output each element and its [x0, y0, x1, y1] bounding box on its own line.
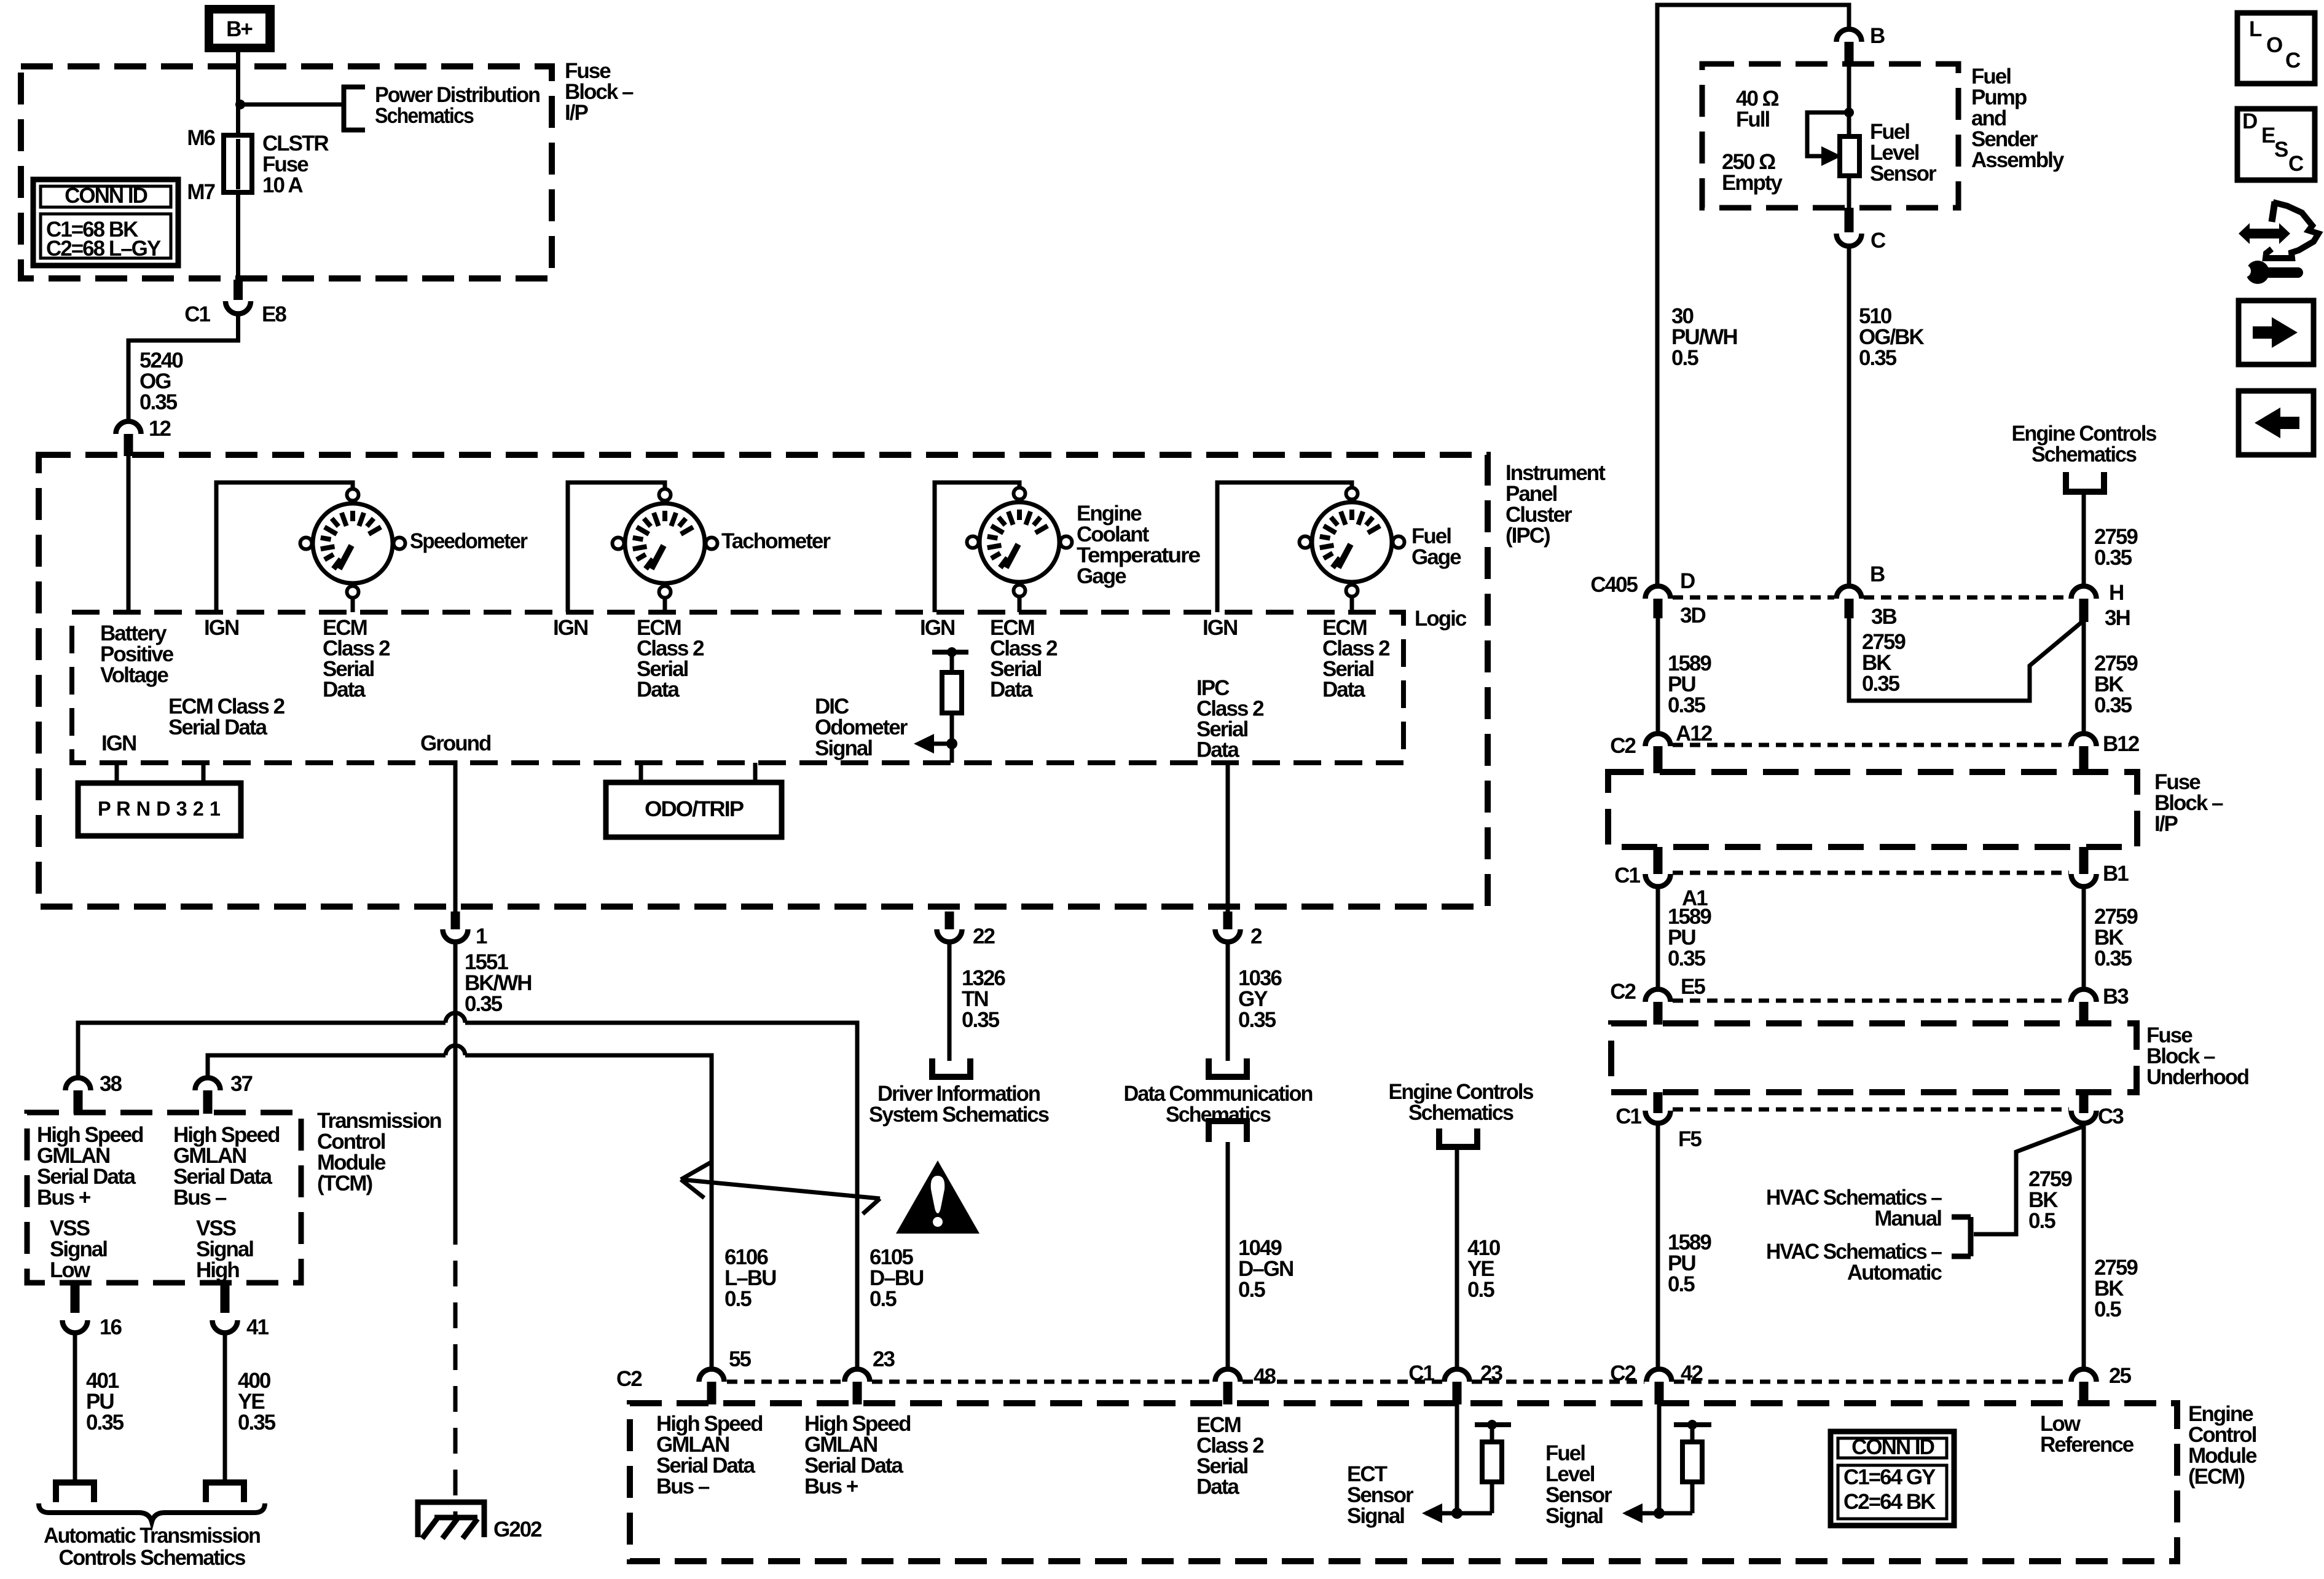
- HVAC off-page bracket: [1952, 1217, 1971, 1256]
- label Speedometer: [410, 529, 528, 553]
- pin 48 terminal bar: [1223, 1382, 1233, 1404]
- wire 2759 to C405 H: [2082, 492, 2086, 585]
- connector 55 arc: [699, 1369, 724, 1382]
- pin 1 terminal bar: [451, 912, 460, 929]
- svg-text:41: 41: [246, 1315, 269, 1339]
- label wire 6105 D-BU 0.5: [870, 1245, 924, 1311]
- svg-text:3B: 3B: [1871, 605, 1896, 629]
- pin B1 terminal bar: [2079, 847, 2089, 874]
- svg-text:Signal: Signal: [815, 736, 872, 760]
- wire GMLAN bus+ 38 to 23: [78, 1013, 857, 1369]
- fuse block Underhood dashed box: [1611, 1023, 2137, 1092]
- label B (fuel pump): [1870, 24, 1885, 48]
- wire CLSTR fuse to connector C1-E8: [236, 192, 240, 281]
- icon LOC box: [2237, 13, 2315, 84]
- wire 400 YE: [223, 1331, 227, 1483]
- pin 41 terminal bar: [221, 1283, 230, 1313]
- connector C2 42 arc: [1647, 1369, 1672, 1382]
- svg-text:0.5: 0.5: [1238, 1278, 1265, 1302]
- label 3H: [2105, 606, 2130, 630]
- pin B12 terminal bar: [2079, 746, 2089, 773]
- svg-text:0.35: 0.35: [1668, 693, 1706, 717]
- svg-text:Manual: Manual: [1874, 1207, 1941, 1231]
- svg-text:F5: F5: [1678, 1127, 1702, 1151]
- svg-text:Bus +: Bus +: [37, 1186, 91, 1210]
- svg-text:10 A: 10 A: [262, 173, 303, 197]
- wire stub logic to PRND321 pin1: [115, 763, 119, 785]
- label IPC Class 2 Serial Data: [1196, 676, 1264, 762]
- label 38: [100, 1072, 122, 1096]
- connector C405 D arc: [1646, 586, 1671, 599]
- label Fuse Block I/P: [565, 59, 634, 125]
- fuse CLSTR 10A: [224, 135, 252, 192]
- svg-text:E: E: [2261, 124, 2275, 148]
- svg-text:IGN: IGN: [204, 616, 238, 640]
- svg-text:0.35: 0.35: [1668, 947, 1706, 971]
- svg-text:C2: C2: [1610, 1361, 1636, 1385]
- wire GMLAN bus- 37 to 55: [208, 1045, 712, 1369]
- junction dot ECT rail: [1487, 1420, 1497, 1430]
- warning triangle note: [896, 1160, 979, 1234]
- label Engine Control Module ECM: [2188, 1402, 2257, 1489]
- label C405: [1590, 573, 1638, 597]
- battery positive voltage B+ symbol: [205, 5, 275, 52]
- svg-text:S: S: [2274, 138, 2288, 162]
- label 2: [1250, 924, 1262, 948]
- svg-text:Full: Full: [1736, 108, 1769, 132]
- label A1: [1682, 886, 1708, 910]
- label D: [1680, 569, 1695, 593]
- wire resistor to DIC tap: [950, 713, 954, 763]
- connector 25 arc: [2071, 1369, 2097, 1382]
- wire 1589 PU F5 to 42: [1656, 1125, 1660, 1369]
- label wire 410 YE 0.5: [1467, 1236, 1501, 1302]
- wire 2759 BK HVAC branch: [1974, 1127, 2083, 1234]
- pin C2-42 terminal bar: [1655, 1382, 1664, 1404]
- display ODO/TRIP: [606, 782, 782, 837]
- arrow fuel level sensor wiper: [1821, 146, 1842, 166]
- label Fuel Gage: [1411, 524, 1461, 569]
- twisted pair note arrow: [681, 1162, 880, 1214]
- dotted connector row E5 B3: [1673, 999, 2069, 1003]
- label 3B: [1871, 605, 1896, 629]
- svg-text:25: 25: [2109, 1364, 2131, 1388]
- svg-text:Data: Data: [1196, 738, 1239, 762]
- connector 37 arc: [195, 1078, 221, 1091]
- svg-text:0.5: 0.5: [1668, 1272, 1695, 1296]
- label Fuel Level Sensor Signal: [1545, 1441, 1612, 1528]
- connector 12 arc: [116, 421, 141, 434]
- wire IGN rail to resistor: [950, 652, 954, 675]
- label C3: [2098, 1105, 2124, 1128]
- label Automatic Transmission Controls Schematics: [44, 1524, 261, 1570]
- connector B12 arc: [2071, 733, 2097, 746]
- resistor ECT pullup: [1482, 1442, 1502, 1482]
- svg-text:0.35: 0.35: [2094, 947, 2132, 971]
- wire pin 12 to logic battery input: [127, 456, 131, 612]
- junction dot fuel signal: [1654, 1508, 1665, 1519]
- svg-text:0.5: 0.5: [2028, 1209, 2055, 1233]
- resistor fuel level pullup: [1682, 1442, 1702, 1482]
- svg-text:C2=64 BK: C2=64 BK: [1843, 1490, 1936, 1514]
- label B (C405): [1870, 562, 1885, 586]
- pin E5 terminal bar: [1654, 1002, 1663, 1025]
- svg-text:Logic: Logic: [1415, 607, 1467, 631]
- wire IPC class2 to pin 2: [1226, 763, 1230, 913]
- label G202: [493, 1518, 542, 1542]
- svg-text:0.35: 0.35: [962, 1008, 1000, 1032]
- svg-text:38: 38: [100, 1072, 122, 1096]
- svg-text:E8: E8: [262, 302, 286, 326]
- svg-text:23: 23: [1480, 1361, 1502, 1385]
- svg-text:Automatic Transmission: Automatic Transmission: [44, 1524, 261, 1548]
- svg-text:Bus +: Bus +: [804, 1475, 858, 1498]
- pin 3D terminal bar: [1654, 599, 1663, 618]
- dotted connector row C405: [1673, 596, 2069, 600]
- label wire 400 YE 0.35: [238, 1369, 276, 1435]
- svg-text:Schematics: Schematics: [2032, 443, 2137, 467]
- svg-text:B12: B12: [2103, 732, 2140, 756]
- svg-text:1: 1: [476, 924, 487, 948]
- wire stub logic to PRND321 pin2: [202, 763, 206, 785]
- label C1 (ECT): [1408, 1361, 1434, 1385]
- svg-text:(IPC): (IPC): [1505, 524, 1550, 548]
- label wire 401 PU 0.35: [86, 1369, 124, 1435]
- svg-text:H: H: [2109, 581, 2123, 605]
- svg-text:0.5: 0.5: [1467, 1278, 1494, 1302]
- pin 16 terminal bar: [71, 1283, 80, 1313]
- label 3D: [1680, 604, 1705, 628]
- IPC Logic dashed box: [72, 612, 1403, 763]
- wire ECT rail to resistor: [1490, 1425, 1494, 1444]
- svg-text:Underhood: Underhood: [2146, 1065, 2249, 1089]
- label Fuel Level Sensor: [1870, 120, 1937, 186]
- svg-text:0.35: 0.35: [2094, 546, 2132, 570]
- pin 3B terminal bar: [1845, 599, 1854, 618]
- ECT pullup rail bar: [1475, 1422, 1511, 1427]
- gauge speedometer: [300, 489, 406, 598]
- svg-text:0.5: 0.5: [724, 1287, 752, 1311]
- wire fuel arrow stem: [1626, 1511, 1659, 1516]
- label High Speed GMLAN Serial Data Bus + (TCM): [37, 1123, 143, 1210]
- label Battery Positive Voltage: [100, 621, 174, 687]
- svg-text:System Schematics: System Schematics: [869, 1103, 1050, 1127]
- label 23 (ECT): [1480, 1361, 1502, 1385]
- wire fuel tap horizontal: [1659, 1511, 1692, 1516]
- label DIC Odometer Signal: [815, 695, 908, 760]
- connector C1 E8 arc: [226, 301, 251, 313]
- label 1: [476, 924, 487, 948]
- label E5: [1681, 975, 1705, 999]
- svg-text:Data: Data: [990, 678, 1033, 702]
- svg-text:M6: M6: [187, 126, 215, 150]
- svg-text:Voltage: Voltage: [100, 663, 168, 687]
- svg-text:CONN ID: CONN ID: [65, 184, 147, 208]
- pin A1 terminal bar: [1654, 847, 1663, 874]
- label Fuse Block Underhood: [2146, 1023, 2249, 1089]
- svg-text:Gage: Gage: [1411, 545, 1461, 569]
- svg-text:ODO/TRIP: ODO/TRIP: [645, 797, 744, 821]
- svg-text:48: 48: [1254, 1364, 1276, 1388]
- svg-text:C405: C405: [1590, 573, 1638, 597]
- svg-text:(ECM): (ECM): [2188, 1465, 2244, 1489]
- svg-text:C: C: [2285, 49, 2301, 73]
- svg-text:C1: C1: [1614, 864, 1640, 888]
- svg-text:C2: C2: [616, 1367, 642, 1391]
- connector 22 arc: [937, 929, 962, 942]
- svg-text:22: 22: [973, 924, 995, 948]
- label wire 6106 L-BU 0.5: [724, 1245, 776, 1311]
- svg-text:Data: Data: [1322, 678, 1365, 702]
- pin 25 terminal bar: [2079, 1382, 2089, 1404]
- connector 1 arc: [443, 929, 468, 942]
- wire ground internal: [453, 760, 458, 913]
- label Low Reference: [2040, 1412, 2134, 1457]
- gauge engine coolant temperature: [967, 488, 1072, 597]
- wire ECT sensor signal: [1455, 1404, 1459, 1513]
- svg-text:IGN: IGN: [1203, 616, 1237, 640]
- svg-text:Empty: Empty: [1722, 171, 1783, 195]
- wire fuel pump loop top: [1657, 5, 1849, 585]
- svg-text:Schematics: Schematics: [375, 104, 474, 128]
- wire tachometer to ECM class2 pin: [663, 598, 667, 612]
- wire 1049 D-GN: [1226, 1142, 1230, 1369]
- svg-text:CONN ID: CONN ID: [1851, 1435, 1934, 1459]
- svg-text:55: 55: [729, 1347, 751, 1371]
- label Fuse Block I/P (right): [2154, 770, 2223, 836]
- off-page bracket VSS high: [206, 1483, 244, 1502]
- label ECM Class 2 Serial Data (coolant gauge): [990, 616, 1058, 702]
- svg-text:B3: B3: [2103, 985, 2129, 1009]
- wire 401 PU: [73, 1331, 77, 1483]
- dotted connector row ECM: [727, 1380, 2069, 1384]
- label wire 1049 D-GN 0.5: [1238, 1236, 1293, 1302]
- svg-text:0.35: 0.35: [1862, 672, 1900, 696]
- label 37: [230, 1072, 252, 1096]
- svg-text:Speedometer: Speedometer: [410, 529, 528, 553]
- junction dot DIC signal: [946, 738, 957, 749]
- label IGN logic lower: [101, 731, 136, 755]
- svg-text:0.35: 0.35: [1238, 1008, 1276, 1032]
- junction dot fuel level sensor: [1844, 108, 1854, 117]
- label Power Distribution Schematics: [375, 83, 540, 128]
- pin 3H terminal bar: [2079, 599, 2089, 622]
- pin 37 terminal bar: [203, 1090, 213, 1114]
- label wire 2759 BK 0.35 (3B): [1862, 630, 1906, 696]
- label wire 1589 PU 0.5: [1668, 1231, 1711, 1296]
- label wire 30 PU/WH 0.5: [1671, 304, 1737, 370]
- svg-text:Serial Data: Serial Data: [168, 715, 267, 739]
- svg-text:Signal: Signal: [1545, 1504, 1603, 1528]
- label IGN fuel gauge: [1203, 616, 1237, 640]
- wire 5240 OG jog: [128, 313, 238, 420]
- label CLSTR Fuse 10 A: [262, 132, 329, 197]
- off-page bracket data communication lower: [1209, 1121, 1247, 1142]
- label C1 (A1): [1614, 864, 1640, 888]
- label B12: [2103, 732, 2140, 756]
- label wire 510 OG/BK 0.35: [1859, 304, 1924, 370]
- wire ground dashed to G202: [453, 1219, 458, 1518]
- IGN rail bar DIC: [932, 650, 968, 655]
- svg-text:23: 23: [873, 1347, 895, 1371]
- svg-text:C2: C2: [1610, 734, 1636, 758]
- Instrument Panel Cluster IPC dashed box: [39, 455, 1488, 907]
- connector 16 arc: [63, 1320, 88, 1333]
- label 40 ohm Full: [1736, 87, 1779, 132]
- svg-text:P R N D 3 2 1: P R N D 3 2 1: [98, 797, 221, 820]
- wire coolant gauge to ECM class2 pin: [1018, 597, 1022, 612]
- junction dot fuel rail: [1687, 1420, 1697, 1430]
- off-page bracket Power Distribution: [342, 85, 365, 132]
- label IGN tachometer: [553, 616, 587, 640]
- wire junction to power distribution bracket: [240, 103, 342, 107]
- svg-text:Data: Data: [1196, 1475, 1239, 1499]
- svg-text:Gage: Gage: [1077, 564, 1126, 588]
- label wire 2759 BK 0.35 (lower): [2094, 905, 2138, 971]
- svg-text:Schematics: Schematics: [1408, 1101, 1513, 1125]
- connector B1 arc: [2071, 874, 2097, 887]
- pin F5 terminal bar: [1654, 1092, 1663, 1113]
- connector C arc (fuel pump): [1837, 234, 1862, 246]
- svg-text:0.35: 0.35: [139, 390, 178, 414]
- svg-text:Bus –: Bus –: [656, 1475, 710, 1498]
- wire 2759 BK C3 to 25: [2082, 1125, 2086, 1369]
- icon back arrow box: [2239, 391, 2314, 455]
- label M7: [187, 180, 214, 204]
- svg-text:C2: C2: [1610, 980, 1636, 1004]
- label HVAC Schematics Manual: [1766, 1186, 1942, 1231]
- connector C1 A1 arc: [1646, 874, 1671, 887]
- label H: [2109, 581, 2123, 605]
- svg-text:0.35: 0.35: [238, 1411, 276, 1435]
- label wire 1036 GY 0.35: [1238, 966, 1282, 1032]
- connector C1 23 arc: [1445, 1369, 1470, 1382]
- icon DESC box: [2237, 109, 2315, 180]
- wire 1589 PU A1 to E5: [1656, 889, 1660, 990]
- wire fuel rail to resistor: [1690, 1425, 1695, 1444]
- label High Speed GMLAN Serial Data Bus - (TCM): [173, 1123, 280, 1210]
- svg-text:C1: C1: [1615, 1105, 1641, 1128]
- svg-text:0.5: 0.5: [2094, 1297, 2121, 1321]
- label IGN coolant gauge: [920, 616, 954, 640]
- label M6: [187, 126, 215, 150]
- label C1 (F5): [1615, 1105, 1641, 1128]
- wire fuel gauge to ECM class2 pin: [1350, 597, 1354, 612]
- arrow DIC odometer signal: [914, 734, 934, 754]
- icon forward arrow box: [2239, 301, 2314, 364]
- svg-text:0.35: 0.35: [1859, 346, 1897, 370]
- label 41: [246, 1315, 269, 1339]
- pin 2 terminal bar: [1223, 912, 1233, 929]
- svg-text:L: L: [2249, 17, 2262, 41]
- label Transmission Control Module TCM: [317, 1109, 441, 1195]
- connector 38 arc: [66, 1078, 91, 1091]
- wire fuel resistor down: [1690, 1482, 1695, 1513]
- label wire 2759 BK 0.5 (HVAC): [2028, 1167, 2072, 1233]
- svg-text:Data: Data: [323, 678, 366, 702]
- wire IGN loop speedometer: [216, 482, 353, 612]
- connector C3 arc: [2071, 1111, 2097, 1124]
- svg-text:0.35: 0.35: [465, 992, 503, 1016]
- label wire 1589 PU 0.35 (lower): [1668, 905, 1711, 971]
- svg-text:3D: 3D: [1680, 604, 1705, 628]
- svg-text:C1: C1: [1408, 1361, 1434, 1385]
- label ECM Class 2 Serial Data (tachometer): [637, 616, 704, 702]
- pin C3 terminal bar: [2079, 1092, 2089, 1113]
- svg-text:0.35: 0.35: [86, 1411, 124, 1435]
- label 250 ohm Empty: [1722, 150, 1783, 195]
- label ECM Class 2 Serial Data logic lower: [168, 695, 285, 739]
- svg-text:16: 16: [100, 1315, 122, 1339]
- brace automatic transmission: [39, 1503, 265, 1522]
- svg-text:B+: B+: [226, 17, 253, 41]
- CONN ID table ECM: [1831, 1431, 1954, 1526]
- display PRND321: [78, 783, 241, 836]
- connector 23 arc: [845, 1369, 870, 1382]
- svg-text:Reference: Reference: [2040, 1433, 2134, 1457]
- svg-text:Bus –: Bus –: [173, 1186, 227, 1210]
- svg-text:O: O: [2266, 33, 2283, 57]
- label Ground: [420, 731, 491, 755]
- connector B arc (fuel pump): [1837, 30, 1862, 42]
- label 22: [973, 924, 995, 948]
- label Data Communication Schematics: [1124, 1082, 1313, 1127]
- connector 41 arc: [213, 1320, 238, 1333]
- arrow fuel level sensor signal: [1622, 1503, 1643, 1523]
- svg-text:C: C: [1871, 229, 1886, 253]
- label wire 5240 OG 0.35: [139, 348, 183, 414]
- svg-text:37: 37: [230, 1072, 252, 1096]
- fuel level sensor wiper: [1807, 112, 1849, 156]
- arrow ECT sensor signal: [1422, 1503, 1442, 1523]
- label High Speed GMLAN Serial Data Bus - (ECM): [656, 1412, 763, 1498]
- svg-text:IGN: IGN: [101, 731, 136, 755]
- wire 410 YE: [1455, 1147, 1459, 1369]
- label F5: [1678, 1127, 1702, 1151]
- svg-text:B: B: [1870, 562, 1885, 586]
- label Logic: [1415, 607, 1467, 631]
- wire IGN loop fuel gauge: [1217, 482, 1352, 612]
- pin 55 terminal bar: [707, 1382, 716, 1404]
- wire fuel level sensor signal: [1657, 1404, 1662, 1513]
- dotted connector row F5 C3: [1673, 1108, 2069, 1112]
- pin A12 terminal bar: [1654, 746, 1663, 773]
- svg-text:B: B: [1870, 24, 1885, 48]
- svg-text:42: 42: [1681, 1361, 1703, 1385]
- wire stub logic to ODO pin1: [639, 763, 643, 785]
- dotted connector row A1 B1: [1673, 871, 2069, 875]
- label HVAC Schematics Automatic: [1766, 1240, 1942, 1285]
- wire IGN loop coolant gauge: [935, 482, 1019, 612]
- pin 38 terminal bar: [74, 1090, 83, 1114]
- label A12: [1676, 722, 1713, 746]
- svg-text:High: High: [196, 1258, 239, 1282]
- pin 12 terminal bar: [124, 434, 133, 456]
- wire stub logic to ODO pin2: [753, 763, 758, 785]
- label Engine Controls Schematics (middle): [1389, 1080, 1534, 1125]
- dotted connector row A12 B12: [1673, 743, 2069, 747]
- label B1: [2103, 862, 2129, 886]
- pin C terminal bar (fuel pump): [1845, 208, 1854, 232]
- svg-text:Signal: Signal: [1347, 1504, 1404, 1528]
- label wire 1551 BK/WH 0.35: [465, 950, 532, 1016]
- label VSS Signal High: [196, 1216, 253, 1282]
- pin B3 terminal bar: [2079, 1002, 2089, 1025]
- label B3: [2103, 985, 2129, 1009]
- svg-text:D: D: [1680, 569, 1695, 593]
- wire IGN loop tachometer: [568, 482, 665, 612]
- gauge fuel gage: [1300, 488, 1405, 597]
